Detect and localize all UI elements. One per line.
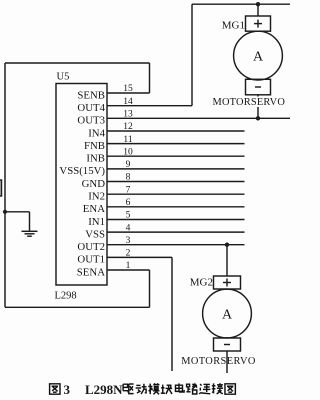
wire: ground net bottom horizontal [5,306,150,308]
svg-text:IN1: IN1 [88,216,105,228]
svg-text:7: 7 [126,185,131,195]
svg-text:10: 10 [123,147,133,157]
svg-text:9: 9 [126,160,131,170]
caption hanzi 电 [175,383,184,392]
pin 4 (VSS) wire [107,231,245,233]
motor MG1 + terminal box [246,16,271,31]
svg-text:MOTORSERVO: MOTORSERVO [181,356,256,367]
svg-text:VSS(15V): VSS(15V) [59,165,105,177]
pin 15 (SENB) wire [107,92,150,94]
svg-text:VSS: VSS [85,228,105,240]
svg-text:ENA: ENA [83,203,105,215]
pin 9 (VSS(15V)) wire [107,168,245,170]
pin 10 (INB) wire [107,155,245,157]
svg-text:INB: INB [86,153,105,165]
wire: ground tap horizontal [5,211,30,213]
caption hanzi 图 [225,384,235,394]
svg-text:15: 15 [123,84,133,94]
svg-text:SENA: SENA [77,266,105,278]
wire: OUT1 drop from pin 2 [171,257,173,371]
node: MG2 top junction on OUT2 line [225,243,229,247]
svg-text:13: 13 [123,110,133,120]
pin 13 (OUT3) wire [107,117,290,119]
wire: top rail to MG1 + [192,3,290,5]
wire: ground net top horizontal [5,62,150,64]
wire: ground tap vertical [29,212,31,231]
wire: SENA drop from pin 1 [149,270,151,307]
svg-text:1: 1 [126,261,131,271]
svg-text:MG1: MG1 [222,20,245,32]
motor MG2 - sign [224,344,230,346]
node: MG1 top junction [256,2,260,6]
motor MG1 + sign [254,20,262,28]
scan smudge left edge [0,180,2,196]
motor MG1 - terminal box [246,79,271,95]
pin 8 (GND) wire [107,181,245,183]
pin 2 (OUT1) wire [107,256,172,258]
wire: OUT4 riser up from pin 14 [191,4,193,106]
caption hanzi 动 [136,384,147,394]
svg-text:IN4: IN4 [88,127,105,139]
svg-text:L298: L298 [55,291,77,302]
pin 14 (OUT4) wire [107,105,192,107]
wire: SENB riser up from pin 15 [149,63,151,93]
svg-text:OUT4: OUT4 [77,102,105,114]
motor MG2 - terminal box [214,338,241,351]
svg-text:OUT2: OUT2 [77,241,105,253]
caption hanzi 接 [212,383,223,394]
svg-text:U5: U5 [57,72,70,83]
svg-text:GND: GND [82,178,106,190]
pin 1 (SENA) wire [107,269,150,271]
svg-text:3: 3 [64,382,71,397]
svg-text:2: 2 [126,249,131,259]
svg-text:12: 12 [123,122,133,132]
svg-text:SENB: SENB [77,89,105,101]
svg-text:FNB: FNB [84,140,105,152]
caption hanzi 连 [199,384,210,394]
wire: MG1 - lead down to OUT3 rail [257,95,259,97]
pin 7 (IN2) wire [107,193,245,195]
caption hanzi 路 [186,384,197,394]
ground symbol [22,231,38,236]
pin 11 (FNB) wire [107,143,245,145]
pin 12 (IN4) wire [107,130,245,132]
svg-text:8: 8 [126,173,131,183]
pin 6 (ENA) wire [107,206,245,208]
svg-text:14: 14 [123,97,133,107]
svg-text:A: A [222,307,233,322]
svg-text:MOTORSERVO: MOTORSERVO [213,97,286,108]
caption hanzi 块 [161,385,172,394]
svg-text:OUT1: OUT1 [77,254,105,266]
motor MG1 body circle [234,31,283,80]
caption hanzi 驱 [123,384,134,394]
wire: MG2 bottom stub [226,351,228,373]
pin 3 (OUT2) wire [107,244,245,246]
node: ground tap junction [3,210,7,214]
pin 5 (IN1) wire [107,219,245,221]
motor MG1 - sign [255,86,261,88]
wire: MG1 + lead [257,4,259,16]
svg-text:11: 11 [123,135,132,145]
svg-text:6: 6 [126,198,131,208]
wire: ground net left vertical [4,63,6,307]
svg-text:L298N: L298N [85,382,123,397]
IC U5 body (L298) [56,84,107,286]
svg-text:5: 5 [126,211,131,221]
motor MG2 body circle [203,289,252,338]
svg-text:A: A [253,50,264,65]
caption hanzi 模 [148,383,159,394]
svg-text:IN2: IN2 [88,191,105,203]
svg-text:OUT3: OUT3 [77,115,105,127]
svg-text:4: 4 [126,223,131,233]
motor MG2 + terminal box [214,276,241,289]
node: MG1 bottom junction [256,116,260,120]
wire: MG2 + lead [226,245,228,276]
caption hanzi 图 [50,384,60,394]
svg-text:MG2: MG2 [190,277,213,289]
motor MG2 + sign [223,279,231,287]
svg-text:3: 3 [126,236,131,246]
